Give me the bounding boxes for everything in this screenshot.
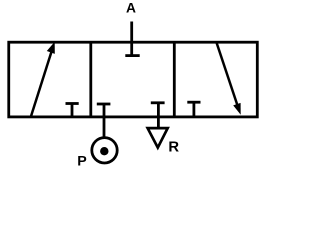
valve body envelope (3-position boxes) xyxy=(9,42,258,117)
exhaust port R (open triangle) xyxy=(148,128,168,148)
blocked port P symbol (centre box) xyxy=(97,104,111,117)
blocked port R symbol (centre box) xyxy=(151,103,165,117)
divider wire between left and centre boxes xyxy=(89,42,92,117)
pressure source P (circle with dot) xyxy=(92,138,117,163)
flow path arrow (right box) xyxy=(217,43,241,115)
port R connection wire xyxy=(157,117,160,129)
svg-text:P: P xyxy=(77,154,86,170)
divider wire between centre and right boxes xyxy=(173,42,176,117)
flow path arrow (left box) xyxy=(31,42,55,117)
port A blocked symbol (centre box) xyxy=(125,22,139,56)
svg-text:R: R xyxy=(168,140,179,156)
blocked port symbol (right box) xyxy=(187,102,200,116)
blocked port symbol (left box) xyxy=(66,104,79,117)
port P connection wire xyxy=(103,117,106,139)
svg-text:A: A xyxy=(126,0,136,15)
